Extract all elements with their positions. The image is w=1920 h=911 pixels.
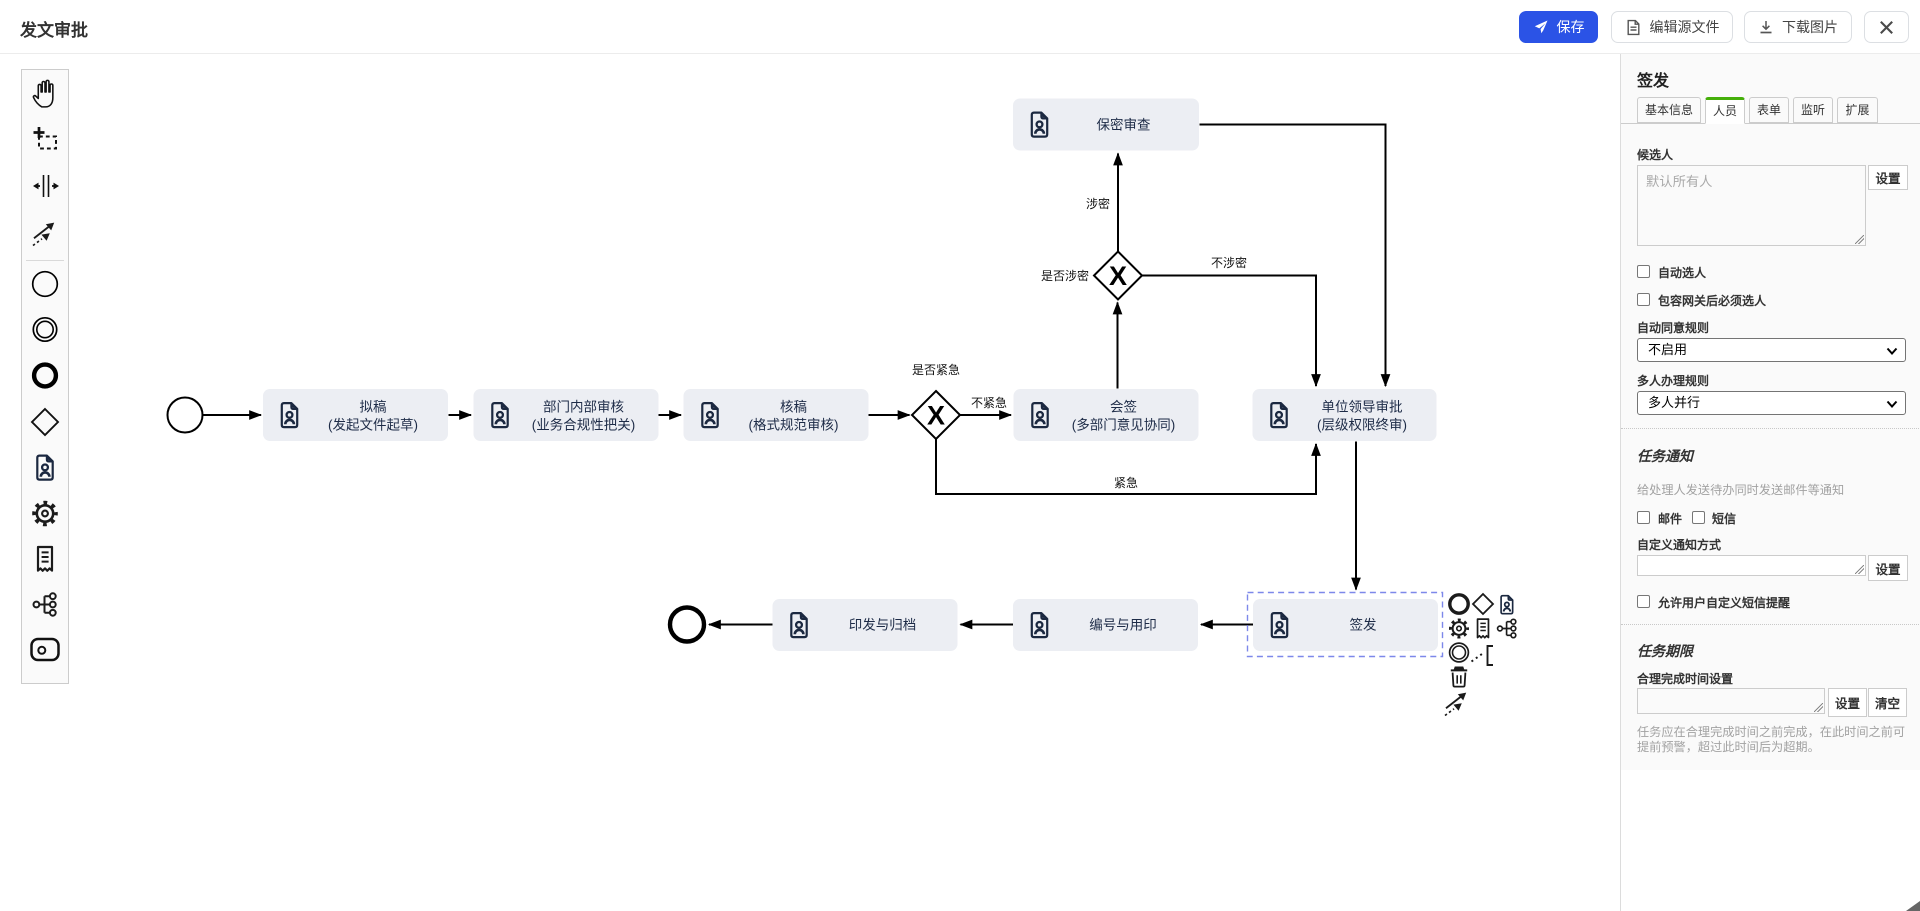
context pad gateway icon [1473,594,1493,614]
svg-text:是否涉密: 是否涉密 [1041,268,1089,283]
svg-text:核稿: 核稿 [780,400,807,415]
save button [1519,11,1598,43]
task 拟稿 [263,389,448,441]
palette multi-instance tree [34,593,56,615]
svg-text:部门内部审核: 部门内部审核 [543,400,624,415]
tabs [1637,97,1701,123]
svg-text:不紧急: 不紧急 [971,395,1007,410]
context pad service-task icon [1450,620,1467,637]
end event [670,608,704,642]
task 会签 [1014,389,1199,441]
palette gateway [32,409,58,435]
window resize corner grip [1906,901,1920,911]
properties panel [1620,54,1920,911]
context pad end-event icon [1450,595,1468,613]
svg-text:签发: 签发 [1350,617,1378,633]
gateway2 是否涉密 [1094,252,1142,300]
start event [168,398,203,433]
palette receipt task [38,547,52,571]
palette service task (gear) [34,503,56,525]
sequence flow start->拟稿 [203,414,261,416]
sequence flow 单位领导审批->签发 [1355,442,1357,590]
svg-text:X: X [927,401,945,431]
svg-text:单位领导审批: 单位领导审批 [1322,400,1403,415]
svg-text:印发与归档: 印发与归档 [849,617,917,633]
sequence flow gateway1->单位领导审批 紧急 [936,439,1316,494]
svg-text:(多部门意见协同): (多部门意见协同) [1072,417,1176,433]
svg-text:(业务合规性把关): (业务合规性把关) [532,418,636,433]
svg-text:保密审查: 保密审查 [1097,117,1151,133]
sequence flow gateway1->会签 不紧急 [960,414,1011,416]
svg-text:(层级权限终审): (层级权限终审) [1317,417,1407,433]
sequence flow 编号与用印->印发与归档 [961,624,1014,626]
palette user task [37,456,52,480]
context pad delete icon [1451,667,1467,686]
context pad intermediate-event icon [1450,643,1469,662]
download button [1744,11,1852,43]
task 印发与归档 [773,599,958,651]
context pad multi-instance icon [1498,619,1516,637]
palette start event [33,272,58,297]
svg-text:紧急: 紧急 [1114,475,1138,490]
svg-text:是否紧急: 是否紧急 [912,362,960,377]
sequence flow 签发->编号与用印 [1201,624,1253,626]
svg-text:不涉密: 不涉密 [1211,255,1247,270]
sequence flow gateway2->保密审查 涉密 [1117,154,1119,252]
palette lasso tool [34,127,57,149]
palette end event [34,365,56,387]
svg-text:(格式规范审核): (格式规范审核) [749,418,839,433]
sequence flow 会签->gateway2 [1117,303,1119,389]
palette intermediate event [33,318,56,341]
context pad text-annotation icon [1472,646,1494,665]
sequence flow 印发与归档->end [709,624,773,626]
header bar [0,0,1920,54]
task 签发 selected [1253,599,1438,651]
svg-text:X: X [1109,261,1127,291]
svg-text:涉密: 涉密 [1086,196,1110,211]
svg-text:编号与用印: 编号与用印 [1089,618,1157,633]
palette space tool [33,175,59,197]
task 保密审查 [1013,99,1199,151]
palette call activity [32,639,59,660]
context pad receipt-task icon [1478,619,1489,638]
canvas placeholder [0,54,1620,911]
palette container [22,70,69,684]
gateway1 是否紧急 [912,391,960,439]
svg-text:(发起文件起草): (发起文件起草) [328,418,418,433]
context pad connect icon [1445,693,1466,716]
context pad user-task icon [1501,596,1513,614]
palette hand tool [33,80,52,106]
task 部门内部审核 [474,389,659,441]
sequence flow 部门内部审核->核稿 [659,414,682,416]
selection outline of 签发 [1248,593,1443,657]
task 单位领导审批 [1253,389,1437,441]
task 核稿 [684,389,869,441]
palette global connect tool [33,223,54,246]
svg-text:拟稿: 拟稿 [360,400,387,415]
sequence flow 拟稿->部门内部审核 [449,414,472,416]
close button [1864,11,1909,43]
edit source button [1611,11,1733,43]
svg-text:会签: 会签 [1110,399,1138,415]
task 编号与用印 [1013,599,1198,651]
sequence flow 核稿->gateway1 [869,414,910,416]
palette separator [26,260,64,262]
sequence flow gateway2->单位领导审批 不涉密 [1142,276,1316,387]
sequence flow 保密审查->单位领导审批 [1200,125,1386,387]
